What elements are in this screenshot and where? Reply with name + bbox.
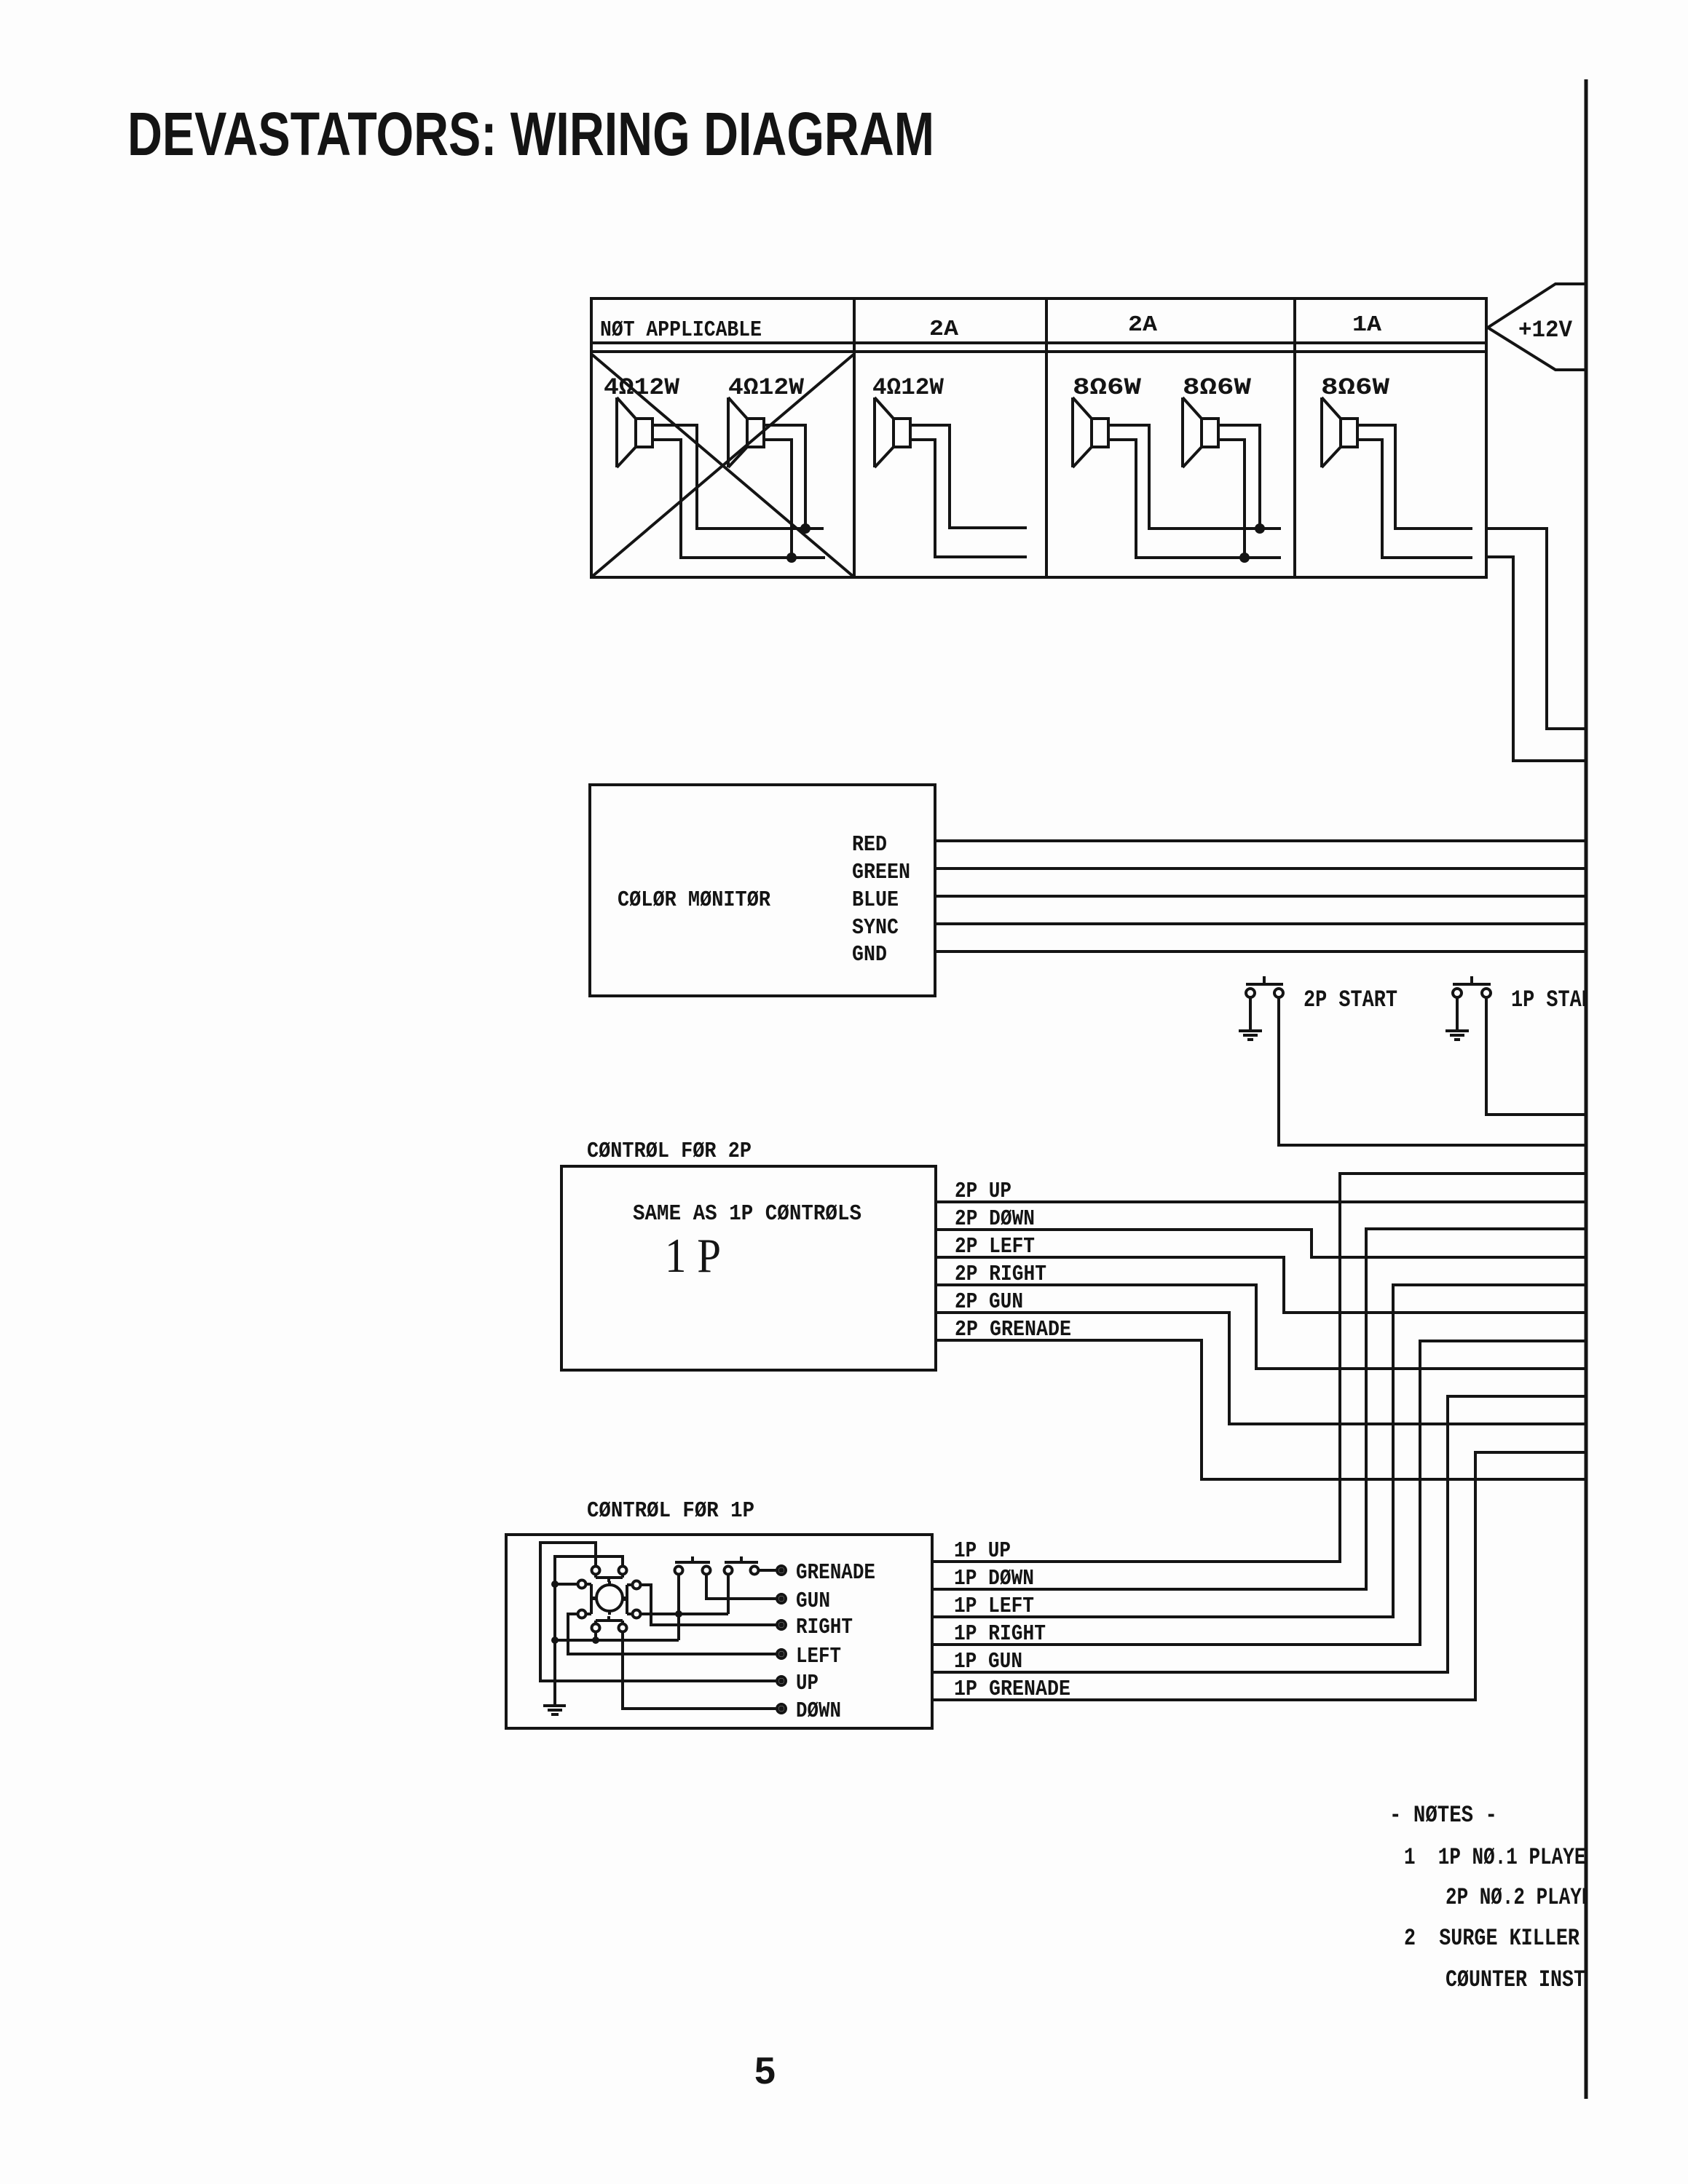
- svg-text:GRENADE: GRENADE: [796, 1560, 875, 1586]
- wire right switch to GRENADE button common: [641, 1575, 728, 1614]
- wire ground riser to GUN button: [677, 1575, 680, 1640]
- svg-text:1P LEFT: 1P LEFT: [954, 1594, 1034, 1619]
- svg-text:1 P: 1 P: [665, 1229, 721, 1283]
- svg-text:DEVASTATORS: WIRING DIAGRAM: DEVASTATORS: WIRING DIAGRAM: [127, 100, 934, 168]
- svg-text:1P RIGHT: 1P RIGHT: [954, 1621, 1046, 1647]
- microswitch right: [623, 1581, 641, 1618]
- table column divider 3: [1293, 298, 1296, 577]
- wire 1P GRENADE: [932, 1452, 1585, 1700]
- junction bottom switch: [592, 1637, 599, 1644]
- svg-text:GREEN: GREEN: [852, 860, 910, 885]
- svg-text:DØWN: DØWN: [796, 1698, 841, 1724]
- wire SP5 minus: [1218, 440, 1245, 558]
- svg-text:2P START: 2P START: [1304, 986, 1397, 1013]
- svg-text:2 SURGE KILLER: 2 SURGE KILLER: [1404, 1925, 1580, 1952]
- terminal UP: [777, 1677, 786, 1685]
- svg-text:- NØTES -: - NØTES -: [1389, 1802, 1497, 1829]
- ground symbol 1P: [543, 1706, 566, 1714]
- svg-text:BLUE: BLUE: [852, 887, 899, 913]
- svg-text:2P LEFT: 2P LEFT: [955, 1234, 1035, 1259]
- wire UP terminal: [540, 1543, 777, 1681]
- wire DOWN terminal: [623, 1632, 777, 1709]
- connector +12V: [1488, 284, 1586, 370]
- wire bottom switch stub: [594, 1632, 597, 1640]
- junction SP2 minus: [786, 553, 797, 563]
- svg-text:CØNTRØL FØR 2P: CØNTRØL FØR 2P: [587, 1139, 752, 1164]
- wire 1P GUN: [932, 1396, 1585, 1672]
- svg-text:GND: GND: [852, 942, 887, 968]
- wire 2P START signal: [1279, 997, 1585, 1145]
- wire GRENADE terminal: [759, 1569, 777, 1572]
- svg-text:+12V: +12V: [1518, 317, 1573, 344]
- wire GND: [935, 950, 1585, 953]
- svg-text:2A: 2A: [929, 317, 958, 342]
- junction ground riser: [675, 1610, 682, 1618]
- svg-text:8Ω6W: 8Ω6W: [1183, 374, 1252, 401]
- speaker SP5: [1183, 397, 1218, 467]
- svg-text:5: 5: [754, 2050, 776, 2092]
- wire 1P LEFT: [932, 1285, 1585, 1617]
- speaker SP6: [1322, 397, 1357, 467]
- control box 2P: [561, 1166, 936, 1370]
- svg-text:1P DØWN: 1P DØWN: [954, 1566, 1034, 1591]
- pushbutton GUN: [675, 1556, 711, 1575]
- svg-text:NØT APPLICABLE: NØT APPLICABLE: [600, 317, 762, 343]
- svg-text:4Ω12W: 4Ω12W: [872, 374, 944, 401]
- svg-text:CØUNTER INSTA: CØUNTER INSTA: [1446, 1966, 1598, 1993]
- junction SP5 plus: [1255, 523, 1265, 534]
- wire SP1 minus: [652, 440, 825, 558]
- wire SP3 plus: [910, 425, 1027, 528]
- wire 2P DOWN: [936, 1230, 1585, 1257]
- junction SP5 minus: [1239, 553, 1250, 563]
- svg-text:1P GRENADE: 1P GRENADE: [954, 1677, 1070, 1702]
- table column divider 1: [853, 298, 856, 577]
- wire 1P UP: [932, 1174, 1585, 1562]
- page edge rule: [1585, 79, 1588, 2099]
- terminal RIGHT: [777, 1621, 786, 1629]
- not-applicable X cross: [592, 355, 853, 577]
- wire LEFT terminal: [568, 1614, 777, 1654]
- wire SP3 minus: [910, 440, 1027, 557]
- pushbutton GRENADE: [725, 1556, 759, 1575]
- microswitch bottom: [592, 1616, 627, 1632]
- wire SP6 plus: [1357, 425, 1472, 529]
- wire SP2 minus: [764, 440, 792, 558]
- wire SP5 plus: [1218, 425, 1260, 529]
- svg-text:1A: 1A: [1352, 312, 1381, 338]
- wire RIGHT terminal: [641, 1585, 777, 1625]
- wire GUN terminal: [706, 1575, 777, 1599]
- terminal GUN: [777, 1594, 786, 1603]
- svg-text:1P UP: 1P UP: [954, 1538, 1011, 1564]
- wire 1P START signal: [1486, 997, 1585, 1115]
- wire SP4 plus: [1108, 425, 1281, 529]
- svg-text:2P DØWN: 2P DØWN: [955, 1206, 1035, 1232]
- svg-text:2P NØ.2 PLAYER: 2P NØ.2 PLAYER: [1446, 1884, 1605, 1911]
- svg-text:CØNTRØL FØR 1P: CØNTRØL FØR 1P: [587, 1498, 754, 1524]
- svg-text:RIGHT: RIGHT: [796, 1615, 853, 1640]
- wire SP1 plus: [652, 425, 824, 529]
- table header rule upper: [591, 341, 1486, 344]
- speaker SP1: [617, 397, 652, 467]
- svg-text:2A: 2A: [1128, 312, 1157, 338]
- wire 1P RIGHT: [932, 1341, 1585, 1645]
- terminal GRENADE: [777, 1566, 786, 1575]
- speaker option table frame: [591, 298, 1486, 577]
- control box 1P: [506, 1535, 932, 1728]
- wire 2P UP: [936, 1200, 1585, 1203]
- ground bus vertical: [553, 1584, 556, 1704]
- joystick ball: [596, 1585, 623, 1611]
- wire GREEN: [935, 867, 1585, 870]
- svg-text:SYNC: SYNC: [852, 915, 899, 941]
- table column divider 2: [1045, 298, 1048, 577]
- wire 1P START to ground: [1456, 997, 1459, 1029]
- svg-text:1P GUN: 1P GUN: [954, 1649, 1022, 1674]
- wire 2P START to ground: [1249, 997, 1252, 1029]
- svg-text:GUN: GUN: [796, 1588, 830, 1614]
- ground 1P START: [1446, 1031, 1469, 1040]
- wire 2P LEFT: [936, 1257, 1585, 1313]
- svg-text:8Ω6W: 8Ω6W: [1073, 374, 1142, 401]
- color monitor box: [590, 785, 935, 996]
- wire SP4 minus: [1108, 440, 1281, 558]
- speaker SP2: [728, 397, 764, 467]
- svg-text:2P RIGHT: 2P RIGHT: [955, 1262, 1046, 1287]
- svg-text:4Ω12W: 4Ω12W: [604, 374, 680, 401]
- junction ground mid: [551, 1637, 559, 1644]
- wire BLUE: [935, 895, 1585, 898]
- joystick ball nubs: [593, 1581, 626, 1615]
- svg-text:UP: UP: [796, 1671, 819, 1696]
- table header rule lower: [591, 350, 1486, 353]
- svg-text:2P UP: 2P UP: [955, 1179, 1011, 1204]
- ground bus horizontal: [555, 1639, 679, 1642]
- svg-text:1P START: 1P START: [1511, 986, 1605, 1013]
- wire 2P GRENADE: [936, 1340, 1585, 1479]
- wire SP6 minus: [1357, 440, 1472, 558]
- wire SP2 plus: [764, 425, 805, 529]
- wire SYNC: [935, 922, 1585, 925]
- svg-text:CØLØR MØNITØR: CØLØR MØNITØR: [618, 887, 770, 913]
- microswitch top: [592, 1567, 627, 1583]
- svg-text:LEFT: LEFT: [796, 1644, 841, 1669]
- speaker SP4: [1073, 397, 1108, 467]
- svg-text:2P GUN: 2P GUN: [955, 1289, 1023, 1315]
- speaker SP3: [875, 397, 910, 467]
- junction ground top: [551, 1580, 559, 1588]
- junction SP2 plus: [800, 523, 811, 534]
- wire top switch to ground bus: [555, 1556, 623, 1584]
- wire 2P RIGHT: [936, 1285, 1585, 1369]
- terminal DOWN: [777, 1704, 786, 1713]
- wire 2P GUN: [936, 1313, 1585, 1424]
- svg-text:4Ω12W: 4Ω12W: [728, 374, 805, 401]
- svg-text:1 1P NØ.1 PLAYER: 1 1P NØ.1 PLAYER: [1404, 1844, 1598, 1871]
- pushbutton 1P START: [1453, 976, 1491, 997]
- wire RED: [935, 839, 1585, 842]
- svg-text:SAME AS 1P CØNTRØLS: SAME AS 1P CØNTRØLS: [633, 1201, 861, 1227]
- microswitch left: [578, 1580, 596, 1618]
- svg-text:2P GRENADE: 2P GRENADE: [955, 1317, 1071, 1342]
- svg-text:RED: RED: [852, 832, 887, 858]
- pushbutton 2P START: [1246, 976, 1283, 997]
- wire speaker feed A: [1486, 529, 1585, 729]
- svg-text:8Ω6W: 8Ω6W: [1321, 374, 1390, 401]
- terminal LEFT: [777, 1650, 786, 1658]
- ground 2P START: [1239, 1031, 1262, 1040]
- wire 1P DOWN: [932, 1229, 1585, 1589]
- wire ground to left switch: [555, 1583, 577, 1586]
- wire speaker feed B: [1486, 557, 1585, 761]
